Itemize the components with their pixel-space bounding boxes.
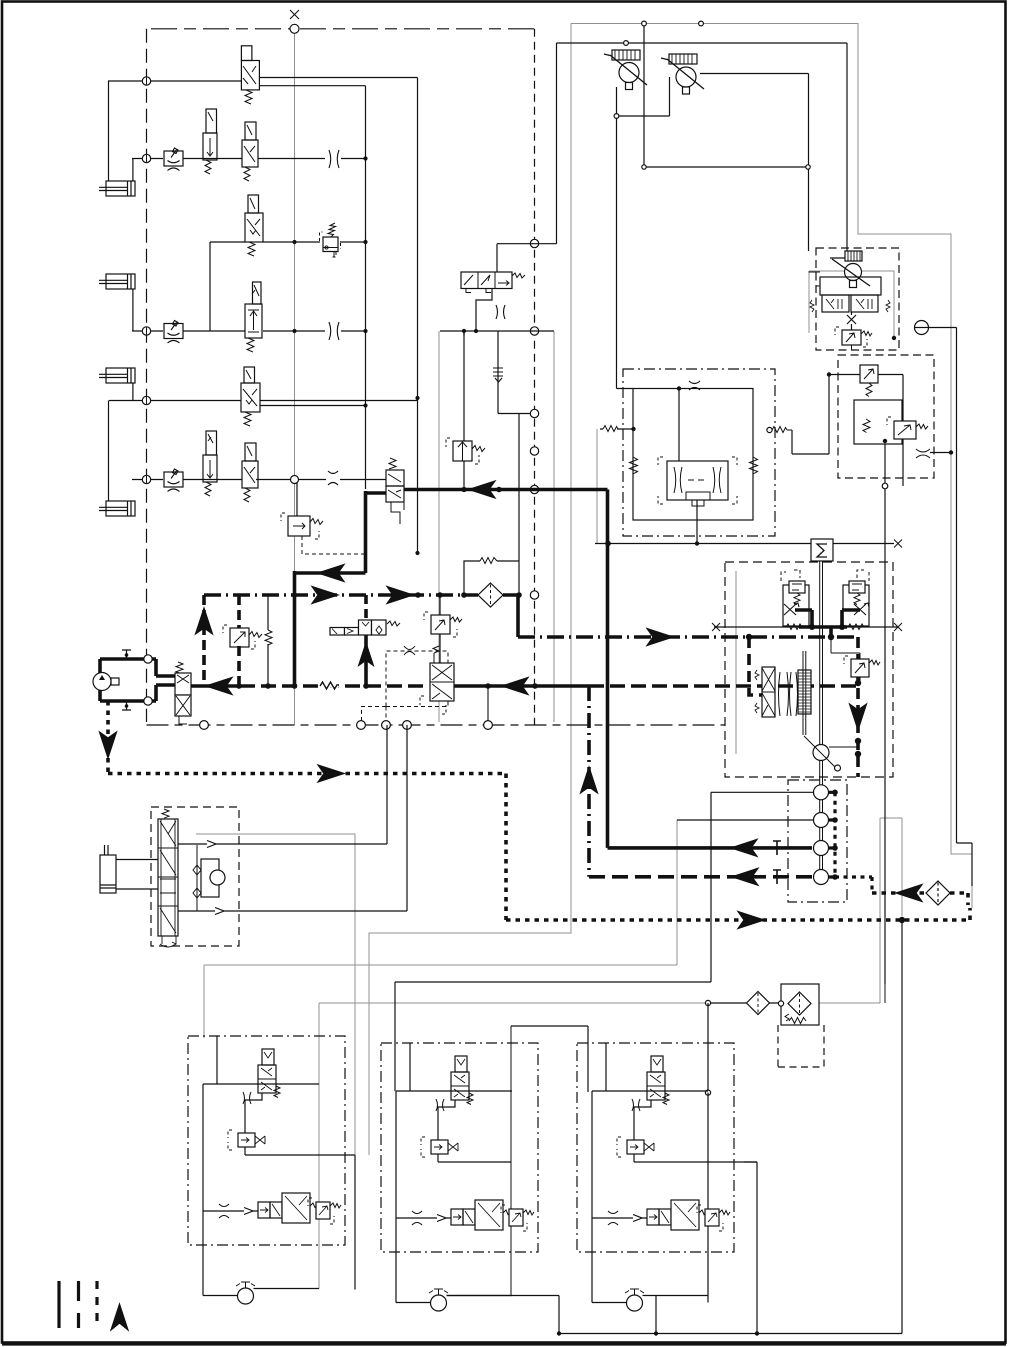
wire RV5 stubs [439, 595, 441, 663]
wire thick dotted x108 [106, 701, 110, 774]
pilot node circle y158 [142, 154, 150, 162]
wire gauge to right drop [929, 328, 973, 887]
big dashed pump box [725, 562, 893, 777]
pinch top of center block [689, 381, 700, 390]
wire thick dotted y893 [872, 891, 968, 895]
wire VC1 to y331 [476, 289, 492, 332]
wire pilot dash-dot top horizontal [151, 28, 535, 30]
arrow mark bottom [244, 1208, 253, 1215]
pilot node circle y479 [142, 475, 150, 483]
spring on y627 right [848, 624, 864, 630]
valve VC [647, 1200, 712, 1230]
arrow left on y876 [732, 868, 758, 885]
pump foot TRP [850, 281, 857, 288]
wire gray x204 drop [203, 965, 205, 1038]
pinch X bottom [219, 1204, 229, 1218]
cluster box [381, 1043, 538, 1252]
legend solid bar [57, 1281, 60, 1328]
spring line x268 [267, 595, 269, 686]
pump unit body [755, 667, 775, 717]
arrow up on x204 [196, 608, 213, 634]
wire y982 run [395, 981, 711, 983]
tick on y876 [773, 870, 781, 884]
wire thick x607 drop [606, 490, 610, 848]
filter F2 boxed [778, 984, 824, 1067]
wire thick pump ports [156, 659, 175, 701]
wire thick pump feed L [749, 637, 763, 695]
wire pump out [643, 1295, 709, 1297]
pinch below valve VA [632, 1099, 640, 1111]
wire thick bus y684 dashed [240, 684, 429, 688]
wire c3 pump link [656, 1093, 708, 1334]
node dot RV5 top [437, 592, 443, 598]
solenoid valve VB [617, 1137, 654, 1157]
pinch X bottom [412, 1211, 422, 1225]
wire RV2 feed [296, 480, 298, 517]
pump unit arcs [779, 672, 798, 716]
center block solid box [633, 389, 753, 521]
spring right of center box [750, 457, 758, 474]
wire cylinder to stack [116, 860, 158, 890]
wire bottom bus [559, 1333, 902, 1335]
handle [111, 678, 119, 685]
x-mark left end y627 [712, 623, 720, 631]
pinch orifice X y479 [328, 471, 338, 485]
wire c2 feed right [510, 1026, 512, 1296]
valve V9 [386, 458, 404, 524]
wire left vertical [203, 1084, 238, 1296]
arrow mark on y844 [207, 841, 216, 848]
pilot valve stack [158, 809, 178, 947]
pump block PB1 internals [93, 650, 191, 724]
CLUSTER2 [381, 1043, 538, 1311]
wire pilot dash-dot bottom horizontal [147, 724, 726, 726]
wire valve VC1 top feed [497, 43, 847, 272]
cylinder CYL4 [99, 501, 135, 516]
cluster box [577, 1043, 734, 1252]
wire valve VB drop [634, 1154, 757, 1162]
arrow mark on y911 [215, 908, 224, 915]
drain spring on x498 [493, 368, 503, 382]
spring of bypass [480, 558, 497, 564]
wire top stub [216, 1036, 218, 1084]
wire thick y489 run [404, 488, 608, 492]
wire gray y965 run [204, 964, 677, 966]
wire thick x858 drop [856, 637, 860, 777]
wire x132 cylinder2 riser [132, 289, 134, 331]
wire c3 feed [707, 1003, 709, 1093]
arrow left on y684 [206, 678, 232, 695]
node circle on dash y725 x361 [357, 721, 366, 730]
arrow right on y637 [647, 629, 673, 646]
pressure gauge G1 [915, 321, 929, 335]
wire x616 long vertical [617, 116, 634, 389]
wire left vertical [396, 1091, 431, 1303]
arrow left on y847 [731, 839, 757, 856]
wire RVa left [792, 375, 860, 455]
pinch orifice )( y158 [329, 150, 339, 168]
valve V8 [242, 443, 258, 502]
wire gray mid box right [553, 331, 555, 722]
wire y820 feed [677, 819, 814, 821]
arrow left on y893 [896, 885, 922, 902]
wire x488 pilot drop [487, 686, 489, 721]
pinch on PV1 box top [404, 646, 415, 655]
circle top vent [290, 24, 299, 33]
relief valve RVa [860, 365, 878, 397]
distribution circle D3 [814, 841, 829, 856]
check valve FC1 [164, 148, 183, 171]
check valve FC2 [164, 321, 183, 344]
relief valve RVc [501, 1205, 534, 1231]
valve VA [258, 1049, 280, 1098]
node circle c3 feed [705, 1090, 710, 1095]
pinch below valve VA [243, 1092, 251, 1104]
pinch X bottom [608, 1211, 618, 1225]
pump circle TRP [845, 264, 862, 281]
wire y400 rail [109, 400, 418, 402]
check tick top [122, 650, 131, 659]
feedback diagonal [804, 736, 837, 769]
BOTTOM [100, 725, 905, 1336]
wire x902 long drop [901, 920, 903, 1334]
legend arrow [111, 1304, 128, 1330]
wire pilot out top [178, 843, 387, 845]
wire left vertical [592, 1091, 627, 1303]
pump actuator striped [798, 670, 811, 714]
wire x407 riser [406, 725, 408, 911]
wire thick dotted y773 [108, 772, 506, 776]
PUMPCOL [395, 761, 872, 983]
x-mark top vent [290, 10, 299, 19]
relief valve RV1 [320, 223, 341, 257]
wire TRP internal [809, 272, 852, 350]
arrow right on y920 [738, 912, 764, 929]
wire c2 bottom link [447, 1296, 560, 1334]
wire valve VB drop [438, 1154, 511, 1162]
filter F1 [747, 992, 770, 1015]
border bottom thick [2, 1342, 1006, 1346]
node dots left block [292, 156, 478, 597]
feedback bar [803, 651, 806, 735]
wire thick y876 dashed run [589, 875, 812, 879]
wire c3 right vertical [756, 1162, 758, 1334]
arrow right on y773 [318, 765, 344, 782]
pilot gauge circle [210, 870, 225, 885]
wire thick x204 riser [202, 595, 206, 686]
node circle x535 y331 [530, 327, 538, 335]
LEFTBLOCK [99, 46, 485, 598]
wire pump out [254, 1288, 320, 1290]
wire fine dash RV2 pilot [302, 536, 365, 554]
wire y413 link [498, 413, 531, 415]
wire gray top loop [571, 24, 972, 909]
twin relief left assembly [781, 570, 809, 626]
relief valve RV4 [223, 625, 262, 649]
wire TRB to filter drop [884, 444, 886, 984]
relief valve RV2 [281, 513, 323, 539]
wire bottom rail [203, 1210, 258, 1212]
wire thick dotted bracket ends [952, 893, 970, 920]
filter FD1 [478, 583, 503, 607]
pinch below valve VA [436, 1099, 444, 1111]
orifice X TRP [847, 312, 856, 330]
wire bottom rail [592, 1217, 647, 1219]
filter bypass loop [464, 561, 519, 595]
node circle x535 y413 [530, 409, 538, 417]
wire spring entry y429 [600, 428, 633, 430]
pump P1 top [604, 50, 647, 90]
pump circle P3 [93, 673, 111, 691]
wire thick x518 drop [516, 595, 520, 637]
node circle x885 [882, 483, 888, 489]
wire y627 relief rail [714, 626, 898, 628]
valve body TRP [820, 277, 881, 295]
distribution circle D4 [814, 870, 829, 885]
wire pilot check branch [193, 845, 201, 911]
TRP dashed box [816, 248, 899, 350]
valve VC1 [461, 272, 525, 293]
spring break on y684 [320, 682, 337, 689]
cylinder CYL2 [99, 274, 135, 289]
thick node dots [236, 487, 905, 924]
wire valve rail [592, 1090, 708, 1092]
second dashed box TRB [838, 355, 934, 478]
node circle on dash y725 x386 [382, 721, 391, 730]
wire thick dotted x506 [504, 774, 508, 921]
solenoid coil TRP [845, 251, 862, 261]
pilot node circle y331 [142, 327, 150, 335]
cluster box [188, 1036, 345, 1245]
wire x711 drop [710, 792, 712, 982]
wire gray x677 riser [676, 820, 678, 965]
solenoid valve VB [421, 1137, 458, 1157]
wire x365 vertical [365, 86, 367, 489]
relief valve RVt [835, 327, 872, 347]
wire y331 rail [132, 330, 366, 332]
spring horizontal y429 [603, 426, 618, 432]
legend dashed bar [77, 1281, 80, 1328]
node circle x535 y595 [530, 591, 538, 599]
wire RVb leads [831, 640, 860, 683]
pinch orifice )( y331 [329, 322, 339, 340]
cylinder CYL1 [99, 181, 135, 196]
wire RVa right drop [878, 375, 903, 487]
pump PM [236, 1282, 255, 1304]
valve VA [451, 1056, 473, 1105]
wire x387 riser [386, 725, 388, 844]
wire x108 drop to cylinder1 [108, 81, 110, 181]
wire gray left drop [369, 24, 571, 1156]
legend dotted bar [95, 1281, 98, 1328]
inner box TRB [854, 400, 902, 444]
wire thick dotted circle stubs [829, 792, 872, 893]
node circle on dash y725 x488 [484, 721, 493, 730]
wire thick x366 riser [364, 595, 368, 618]
pump circle main [813, 745, 829, 761]
pinch orifice below VC1 [496, 305, 505, 319]
wire gray filter link [819, 818, 902, 1003]
check valve FC3 [164, 469, 183, 492]
wire PRV out [930, 452, 951, 454]
arrow up on x366 [358, 641, 375, 667]
wire bottom rail [396, 1217, 451, 1219]
arrow mark bottom [437, 1215, 446, 1222]
valve VA [647, 1056, 669, 1105]
wire gray tank return [319, 1002, 706, 1004]
shuttle box [658, 457, 737, 506]
wire top stub [409, 1043, 411, 1091]
wire gray mid box left [438, 331, 440, 722]
arrow down on x858 [850, 704, 867, 730]
twin relief right assembly [843, 570, 869, 626]
node circle x708 [705, 1000, 710, 1005]
wire y1162 c3 stub [744, 1161, 757, 1163]
relief valve RVc [697, 1205, 730, 1231]
arrow left on y686 mid [502, 678, 528, 695]
wire gray cluster1 feed [318, 1003, 320, 1289]
node dots center [605, 386, 699, 546]
solenoid valve VB [228, 1130, 265, 1150]
wire pilot-signal gray center [294, 33, 296, 725]
valve V6 [241, 367, 260, 426]
small circle end [835, 765, 841, 771]
wire valve rail [396, 1090, 512, 1092]
wire thick bus y686 solid [454, 684, 589, 688]
wire valve VA drop [245, 1093, 262, 1133]
valve V3 [242, 122, 258, 181]
wire pilot out bottom [178, 910, 407, 912]
THICKNET [100, 490, 970, 921]
node circle on dash y725 x204 [200, 721, 209, 730]
relief valve RV5 [424, 612, 462, 637]
wire y242 rail [210, 241, 366, 243]
pilot node circle top [144, 655, 152, 663]
wire thick bus y686 dashed right [589, 684, 858, 688]
wire shaft segments [820, 761, 823, 870]
relief valve RV3 [446, 438, 485, 464]
arrow right on y595 b [387, 587, 413, 604]
wire thick pump block frame [100, 659, 156, 701]
wire x885 into filter [884, 984, 886, 1003]
wire thick x239 riser [237, 595, 241, 686]
arrow left on y573 [318, 565, 344, 582]
wire pilot dashed center vertical [534, 29, 536, 725]
wire pump2 out [700, 74, 809, 252]
wire valve rail [203, 1083, 319, 1085]
wire y158 rail [132, 158, 366, 160]
wire c2 feed [394, 982, 396, 1091]
pilot node circle y81 [142, 77, 150, 85]
RIGHTTOP [725, 248, 972, 984]
pinch below PRV [916, 449, 930, 458]
arrow right on y595 a [312, 587, 338, 604]
filter FT2 on dotted line [926, 881, 950, 905]
pilot cylinder CYL5 [100, 845, 116, 893]
sub valve right TRP [851, 295, 890, 312]
thick stub dots [832, 790, 838, 880]
center block dash-dot box [623, 369, 775, 536]
wire valve VA drop [634, 1100, 651, 1140]
wire thick bus y684 [191, 684, 240, 688]
arrow left on y489 [469, 481, 495, 498]
distribution circle D1 [814, 785, 829, 800]
wire y405 rail [260, 405, 366, 407]
cylinder CYL3 [99, 368, 135, 383]
wire pump right link [829, 746, 858, 748]
lever TRP [830, 258, 870, 286]
wire gray pump box inner [735, 571, 737, 754]
spring left of center box [630, 457, 638, 474]
node circle x535 y489 [530, 485, 538, 493]
pump PM [625, 1289, 644, 1311]
node circle x535 y243 [530, 239, 538, 247]
wire x679 inner drop [678, 389, 680, 462]
spring on y627 left [786, 624, 802, 630]
pilot node circle x294 y479 [291, 476, 299, 484]
pilot gauge box [201, 859, 219, 897]
valve V2 [203, 109, 217, 174]
sub valve left TRP [810, 295, 849, 312]
node circle x535 y451 [530, 447, 538, 455]
valve V4 [245, 195, 263, 256]
proportional valve PV1 [420, 646, 454, 714]
dash-dot box distribution [788, 780, 847, 902]
arrow up on x589 [581, 767, 598, 793]
wire y543 rail [595, 543, 894, 545]
wire x109 drop to cylinder4 [108, 401, 110, 502]
distribution circle D2 [814, 813, 829, 828]
wire pilot dash-dot left vertical [146, 29, 148, 722]
sigma box [811, 539, 833, 561]
CLUSTER1 [188, 1036, 355, 1304]
arrow down on x108 [100, 732, 117, 758]
reducing valve PRV [887, 417, 928, 439]
wire y479 rail [132, 479, 386, 481]
arrow mark bottom [633, 1215, 642, 1222]
wire x697 shuttle drop [696, 500, 698, 544]
wire thick x589 riser [587, 686, 591, 877]
wire pump1 frame [617, 24, 809, 168]
wire thick dotted y920 [506, 918, 952, 922]
node dots right [827, 336, 953, 455]
wire gray spring drop [596, 429, 598, 543]
valve V7 [203, 431, 217, 496]
relief valve RVb [844, 656, 880, 677]
fine dash box around PV1 [362, 651, 449, 721]
DASHNET [147, 10, 726, 729]
wire x417 vertical [417, 78, 419, 554]
wire y331 center rail [440, 330, 554, 332]
wire valve VA drop [438, 1100, 455, 1140]
node circle on dash y725 x407 [403, 721, 412, 730]
node small circles top [614, 21, 810, 169]
wire y792 feed [711, 791, 814, 793]
bottom node dots [557, 917, 905, 1335]
wire right vertical [354, 1155, 356, 1290]
wire valve VB drop [245, 1147, 355, 1155]
valve VC [451, 1200, 516, 1230]
relief valve RVc [308, 1198, 341, 1224]
check tick bottom [122, 701, 131, 710]
GRAYNET [196, 24, 972, 1289]
wire y1026 bridge [511, 1026, 588, 1092]
tick on y847 [773, 841, 781, 855]
wire gray TRP inner box [809, 271, 894, 338]
wire sigma double shaft [820, 561, 823, 746]
wire x210 drop [209, 242, 211, 331]
pump PM [429, 1289, 448, 1311]
